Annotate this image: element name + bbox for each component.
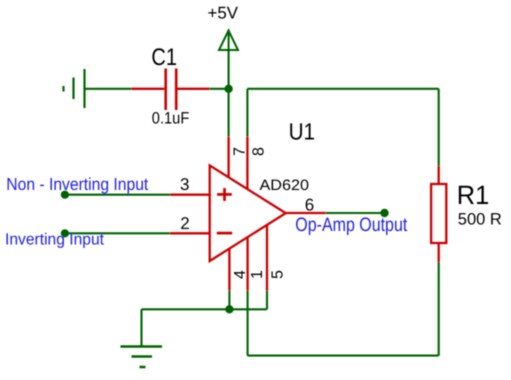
svg-text:8: 8 [250, 147, 267, 156]
pin 7 stub [227, 137, 229, 178]
wire: bottom horizontal to R1 bottom [248, 355, 439, 357]
svg-text:U1: U1 [289, 119, 316, 145]
wire: right vertical down to R1 top [438, 89, 440, 166]
wire: pin1 down [247, 291, 249, 356]
wire: C1 right lead to +5V junction [210, 88, 229, 90]
pin 8 stub [246, 137, 248, 189]
wire: ground rail horizontal [142, 308, 268, 310]
wire: left ground to C1 left lead [85, 88, 133, 90]
pin 4 stub [228, 248, 230, 290]
node dot output [380, 209, 388, 217]
svg-text:R1: R1 [457, 180, 490, 210]
wire: non-inverting input net [65, 194, 170, 196]
wire: ground rail down to GND [140, 309, 142, 346]
node dot non-inverting input [61, 191, 69, 199]
wire: top horizontal to R1 [247, 88, 438, 90]
svg-text:7: 7 [231, 147, 248, 156]
svg-text:Op-Amp Output: Op-Amp Output [295, 214, 407, 236]
node dot inverting input [61, 229, 69, 237]
wire: inverting input net [65, 232, 170, 234]
wire: pin4 down to ground rail [228, 291, 230, 310]
pin 3 stub [170, 194, 210, 196]
junction dot (C1 / +5V / pin7) [224, 85, 232, 93]
svg-text:Non - Inverting Input: Non - Inverting Input [6, 174, 148, 194]
pin 5 stub [266, 225, 268, 291]
+5V supply symbol [219, 30, 238, 51]
resistor R1 [431, 166, 446, 262]
svg-text:Inverting Input: Inverting Input [5, 230, 104, 248]
capacitor C1 [132, 69, 210, 111]
wire: output net [326, 212, 385, 214]
op-amp U1 (AD620) triangle [210, 165, 286, 261]
pin 6 stub (output) [286, 212, 326, 214]
svg-text:5: 5 [270, 270, 287, 279]
svg-text:4: 4 [232, 270, 249, 279]
junction dot pin4/ground rail [225, 305, 233, 313]
svg-text:3: 3 [180, 175, 189, 194]
ground GND left (decreasing bars, rotated) [64, 69, 85, 108]
svg-text:AD620: AD620 [260, 177, 310, 194]
wire: pin8 net up [246, 89, 248, 137]
ground GND bottom [121, 347, 163, 368]
svg-text:+5V: +5V [208, 3, 239, 22]
svg-text:2: 2 [180, 214, 189, 233]
svg-text:6: 6 [305, 196, 314, 215]
wire: +5V down to pin 7 [228, 50, 230, 137]
svg-text:500 R: 500 R [458, 211, 502, 229]
wire: pin5 down to ground rail [266, 291, 268, 310]
pin 2 stub [170, 232, 210, 234]
- symbol (inverting input) [217, 232, 232, 235]
svg-text:1: 1 [249, 270, 266, 279]
+ symbol (non-inverting input) [217, 188, 232, 201]
pin 1 stub [246, 237, 248, 291]
svg-text:0.1uF: 0.1uF [152, 110, 190, 128]
wire: right vertical up to R1 bottom [438, 262, 440, 356]
svg-text:C1: C1 [151, 44, 177, 71]
